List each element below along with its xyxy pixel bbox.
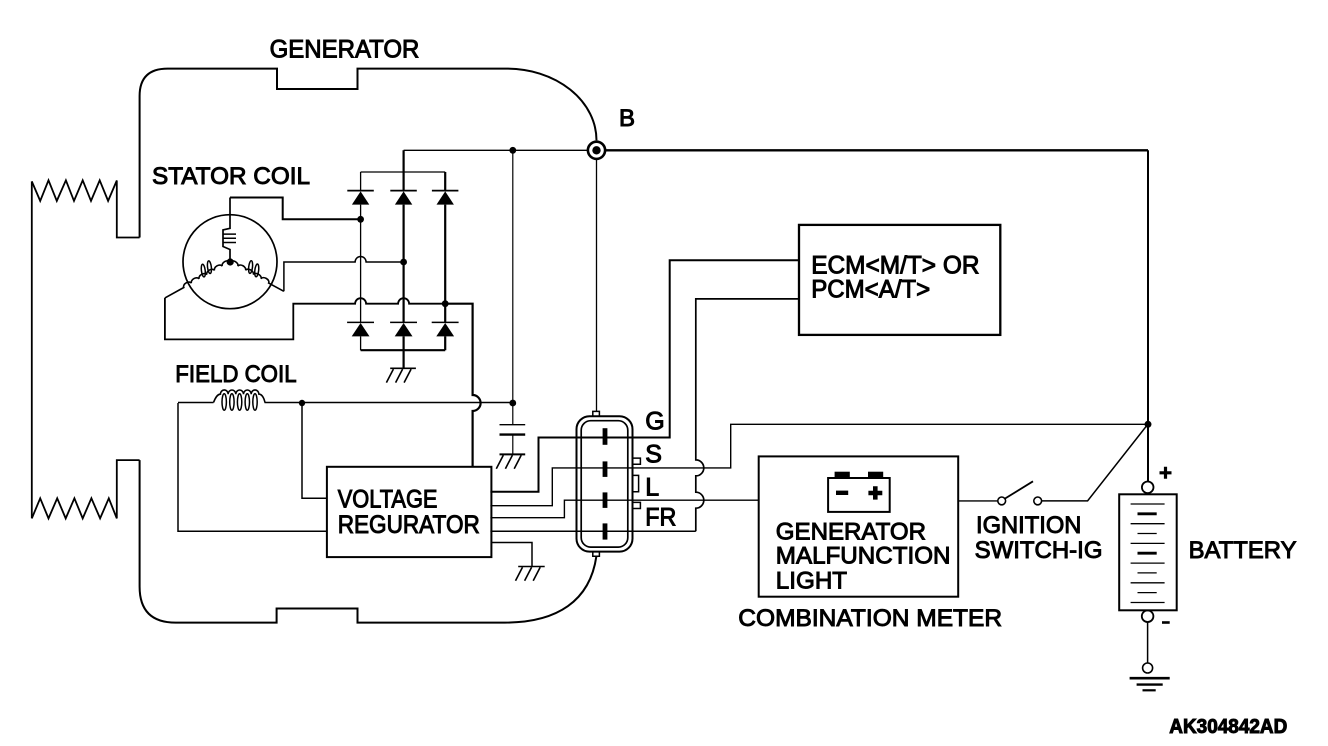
wire: stator top phase to rectifier left column: [230, 198, 361, 220]
wire: B node branch down to capacitor (with junction at field coil wire): [512, 150, 514, 424]
stator winding (lower-left phase, scalloped wire with loops): [159, 251, 230, 299]
junction dot: phase 3 at right column: [442, 300, 449, 307]
battery positive terminal circle: [1142, 482, 1154, 494]
stator winding (top phase, E-shaped coil): [223, 198, 230, 263]
svg-text:PCM<A/T>: PCM<A/T>: [811, 276, 930, 304]
connector right-edge tab (lower): [633, 502, 641, 508]
connector bottom tab: [593, 552, 600, 557]
wire: stator left phase to rectifier right column (hops over two columns): [165, 298, 445, 340]
svg-text:FR: FR: [645, 504, 676, 532]
svg-text:LIGHT: LIGHT: [776, 568, 847, 595]
node B terminal ring: [588, 142, 605, 159]
generator enclosure outline (top edge with notch and rounded corners): [140, 69, 597, 623]
stator star point junction dot: [227, 258, 234, 265]
junction dot: phase 2 at middle column: [400, 259, 407, 266]
wire: regulator to pin G and on to ECM: [490, 260, 799, 492]
ignition switch right contact: [1034, 497, 1042, 505]
ground (battery, earth bars): [1130, 678, 1170, 690]
diode D6 (bottom right): [432, 322, 459, 336]
svg-text:MALFUNCTION: MALFUNCTION: [776, 543, 951, 570]
svg-text:L: L: [645, 474, 659, 502]
svg-text:S: S: [645, 441, 662, 469]
junction dot on B line at capacitor branch: [509, 147, 516, 154]
junction dot: S wire meets battery wire: [1145, 421, 1152, 428]
battery plus label: [1160, 467, 1172, 479]
svg-text:FIELD COIL: FIELD COIL: [175, 361, 296, 388]
wire: node B down to connector top: [596, 160, 598, 412]
wire: field coil node down to regulator: [302, 403, 327, 498]
svg-text:IGNITION: IGNITION: [976, 512, 1081, 539]
svg-text:SWITCH-IG: SWITCH-IG: [975, 537, 1103, 564]
svg-text:GENERATOR: GENERATOR: [270, 36, 420, 64]
rotor brush zigzag (bottom): [32, 460, 140, 518]
rectifier right column wire: [444, 172, 446, 350]
connector top tab: [593, 411, 600, 416]
svg-text:BATTERY: BATTERY: [1189, 537, 1297, 564]
diode D4 (bottom left): [347, 322, 374, 336]
ground (regulator): [516, 567, 545, 581]
wire: field coil left side down to regulator: [178, 403, 327, 531]
junction dot: phase 1 at left column: [357, 216, 364, 223]
stator winding (lower-right phase, scalloped wire with loops): [229, 251, 289, 292]
rotor shaft wire (left vertical): [31, 181, 33, 518]
svg-text:COMBINATION METER: COMBINATION METER: [738, 605, 1002, 632]
svg-text:B: B: [619, 105, 635, 132]
node B center dot: [592, 146, 600, 154]
pin L contact dash: [603, 492, 608, 508]
wire: stator right phase to rectifier middle column (hop over left column): [284, 257, 404, 292]
ground (rectifier negative rail): [386, 368, 416, 382]
ignition switch left contact: [998, 497, 1006, 505]
svg-text:VOLTAGE: VOLTAGE: [338, 486, 438, 514]
field coil L1 (5 hanging loops): [178, 402, 513, 404]
wire: battery negative to ground: [1147, 622, 1149, 663]
rectifier left column wire: [360, 172, 362, 350]
connector inner shell: [581, 421, 628, 547]
wire: regulator to pin S and on to battery node: [490, 424, 1148, 505]
rectifier top rail: [361, 171, 446, 173]
battery plates: [1131, 504, 1165, 603]
wire: pin FR up to ECM (hops over L and S wires): [696, 299, 799, 531]
ignition switch blade (open): [1005, 481, 1033, 498]
connector (generator 4-pin) outer shell: [577, 416, 633, 551]
battery negative terminal circle: [1142, 610, 1154, 622]
wire: node B to battery positive (thick): [606, 149, 1148, 151]
diode D1 (top left): [347, 191, 374, 205]
connector right-edge tab (upper): [633, 458, 641, 464]
svg-text:GENERATOR: GENERATOR: [776, 518, 926, 545]
battery ground connection circle: [1143, 663, 1153, 673]
wire: regulator to pin FR: [490, 530, 695, 532]
wire: rectifier phase-3 node down to regulator top (hop over field wire): [445, 304, 480, 467]
battery case: [1119, 494, 1177, 610]
svg-text:G: G: [645, 407, 664, 435]
pin G contact dash: [603, 428, 608, 445]
ECM/PCM box U2: [799, 225, 1000, 335]
wire: switch to battery node (with diagonal riser): [1042, 425, 1147, 501]
diode D5 (bottom middle): [390, 322, 417, 336]
voltage regulator box U1: [327, 467, 492, 557]
wire: meter box to ignition switch: [958, 500, 998, 502]
connector right-edge latch (middle): [633, 475, 639, 491]
wire: rectifier output to node B (thin): [404, 149, 587, 151]
rectifier bottom rail: [361, 349, 446, 351]
diode D2 (top middle): [390, 191, 417, 205]
pin FR contact dash: [603, 523, 608, 539]
svg-text:REGURATOR: REGURATOR: [338, 511, 480, 539]
stator coil circle: [183, 215, 277, 309]
svg-text:AK304842AD: AK304842AD: [1169, 716, 1287, 738]
svg-text:STATOR COIL: STATOR COIL: [152, 163, 310, 190]
rectifier middle column wire (to B line): [403, 150, 405, 368]
junction dot: field coil to regulator branch: [299, 400, 305, 406]
junction dot at field coil / capacitor node: [509, 400, 516, 407]
pin S contact dash: [603, 461, 608, 477]
wire: regulator ground lead: [491, 543, 532, 567]
combination meter: generator malfunction light box: [759, 456, 959, 596]
rotor brush zigzag (top): [32, 180, 140, 237]
diode D3 (top right): [432, 191, 459, 205]
wire: right-side drop to battery plus node: [1147, 150, 1149, 481]
capacitor C1: [500, 424, 526, 426]
wire: regulator to pin L and on to combination meter: [490, 500, 758, 518]
malfunction light battery-style icon: [828, 472, 890, 512]
battery minus label: [1162, 621, 1170, 624]
ground (capacitor): [496, 454, 525, 468]
